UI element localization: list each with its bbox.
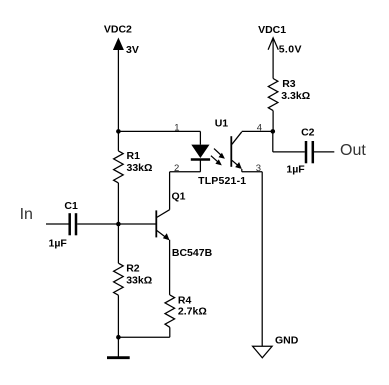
svg-text:U1: U1 <box>215 117 229 129</box>
ground GND symbol <box>253 346 273 358</box>
wire Q1 emitter down to R4 <box>169 240 171 295</box>
wire node to R1 top <box>117 131 119 151</box>
resistor R2 <box>114 263 124 295</box>
wire pin 3 <box>242 171 262 173</box>
svg-text:33kΩ: 33kΩ <box>127 162 153 174</box>
wire Q1 collector up to opto pin 2 <box>169 172 171 210</box>
capacitor C1 <box>70 213 76 235</box>
wire R4 bottom to ground node <box>118 327 169 337</box>
light arrow 1 <box>214 149 225 159</box>
wire C2 to Out <box>314 151 334 153</box>
svg-text:1µF: 1µF <box>49 238 68 250</box>
svg-text:C2: C2 <box>301 127 315 139</box>
svg-text:BC547B: BC547B <box>172 247 213 259</box>
svg-text:TLP521-1: TLP521-1 <box>198 175 246 187</box>
svg-text:1: 1 <box>174 123 179 134</box>
svg-text:2: 2 <box>174 163 179 174</box>
svg-text:VDC1: VDC1 <box>258 24 286 36</box>
resistor R3 <box>268 79 278 111</box>
resistor R1 <box>114 151 124 183</box>
svg-text:4: 4 <box>257 123 262 134</box>
svg-text:3V: 3V <box>126 44 139 56</box>
node C1/R1/R2/Q1 base junction <box>116 222 121 227</box>
svg-text:3.3kΩ: 3.3kΩ <box>281 90 310 102</box>
wire pin 2 <box>170 171 201 173</box>
wire pin 1 <box>118 130 200 132</box>
svg-text:Q1: Q1 <box>172 190 186 202</box>
capacitor C2 <box>306 141 313 163</box>
wire node to R2 top <box>117 224 119 263</box>
svg-text:33kΩ: 33kΩ <box>126 274 152 286</box>
wire pin 4 <box>242 130 273 132</box>
resistor R4 <box>165 295 175 327</box>
svg-text:R3: R3 <box>282 78 296 90</box>
wire R3 bottom to node <box>272 111 274 132</box>
svg-text:Out: Out <box>340 142 366 159</box>
wire pin 3 down to GND <box>261 172 263 346</box>
svg-text:5.0V: 5.0V <box>279 44 302 56</box>
optocoupler U1 phototransistor (pins 4-3) <box>231 132 242 172</box>
svg-text:3: 3 <box>256 163 261 174</box>
light arrow 2 <box>211 156 222 166</box>
wire R1 bottom to C1 node <box>117 183 119 224</box>
svg-text:R2: R2 <box>126 263 140 275</box>
optocoupler U1 LED (pins 1-2) <box>191 131 210 171</box>
transistor Q1 <box>156 210 169 241</box>
node ground junction <box>116 335 121 340</box>
wire node down and right to C2 <box>273 131 305 152</box>
wire junction to Q1 base <box>118 223 155 225</box>
svg-text:R1: R1 <box>127 150 141 162</box>
svg-text:1µF: 1µF <box>286 163 305 175</box>
svg-text:VDC2: VDC2 <box>104 24 132 36</box>
power VDC1 symbol <box>268 38 278 79</box>
wire In to C1 <box>46 223 69 225</box>
power VDC2 symbol <box>113 38 124 132</box>
svg-text:C1: C1 <box>64 200 78 212</box>
svg-text:In: In <box>20 206 33 223</box>
svg-text:2.7kΩ: 2.7kΩ <box>178 305 207 317</box>
svg-text:GND: GND <box>275 335 299 347</box>
ground symbol <box>107 337 130 358</box>
wire C1 to junction node <box>77 223 118 225</box>
node pin4 junction <box>271 129 276 134</box>
node top-left junction <box>116 129 121 134</box>
wire R2 bottom to ground node <box>117 295 119 337</box>
